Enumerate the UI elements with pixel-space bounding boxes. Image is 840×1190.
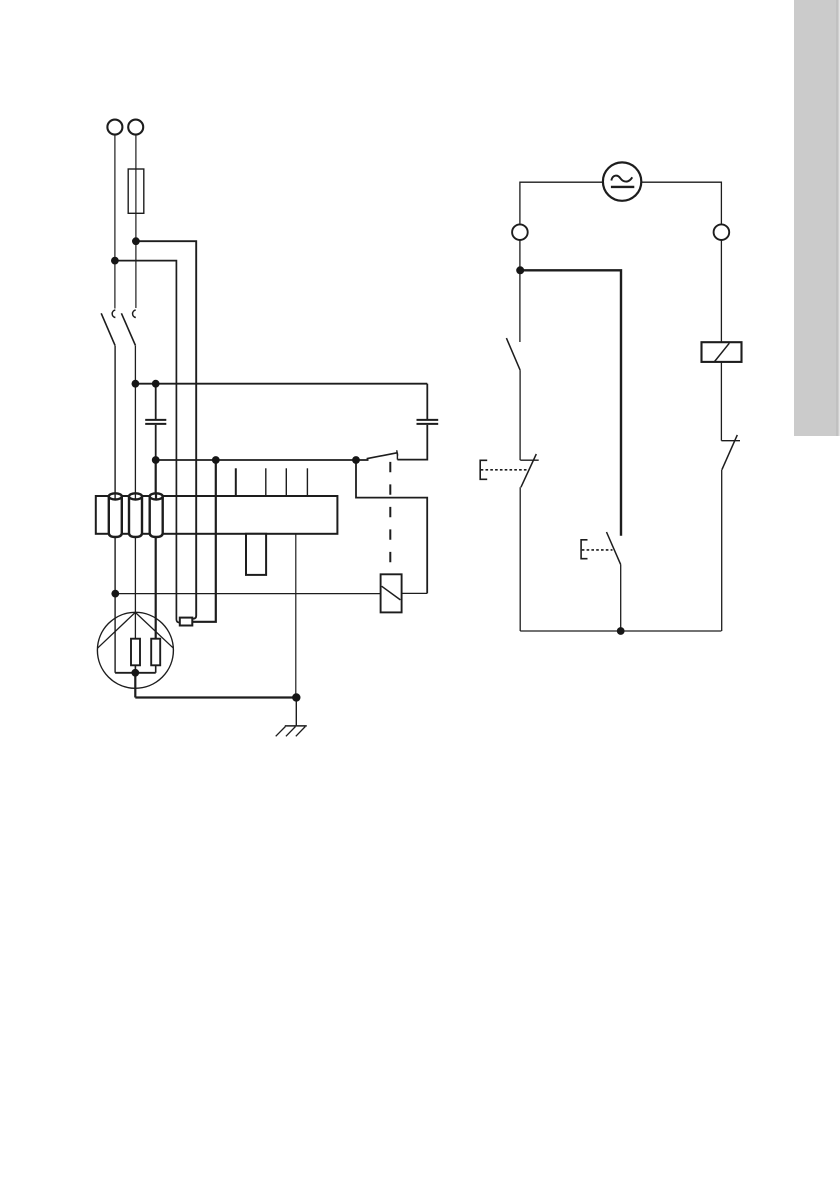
winding 1 lead (134, 665, 136, 673)
switch S1 blade (101, 313, 115, 345)
node bus2 c (352, 456, 360, 464)
wire node to column 3 (115, 261, 180, 623)
NC contact bar (721, 440, 740, 442)
relay contact blade K1 (367, 453, 398, 459)
wire winding bottoms (115, 672, 156, 674)
mechanical link dashed (389, 462, 391, 574)
start button bracket (581, 540, 587, 559)
winding 2 lead (155, 665, 157, 673)
winding 1 (131, 639, 140, 666)
pressure switch blade (521, 454, 536, 487)
relay coil K1 (381, 574, 402, 612)
fuse F1 (128, 169, 144, 213)
terminal block body (96, 496, 338, 534)
wire phase bus upper (135, 383, 427, 385)
wire right branch lower (721, 470, 723, 631)
cylinder terminal 3 (150, 493, 163, 537)
terminal circle right (714, 224, 730, 240)
cylinder terminal 1 (109, 493, 122, 537)
stub t7 (265, 468, 267, 496)
node bus2 a (152, 456, 160, 464)
motor chord right (135, 612, 173, 647)
relay coil diagonal (382, 586, 401, 600)
wire top left (520, 182, 603, 224)
pressure switch bar (520, 459, 538, 461)
cylinder terminal 2 (129, 493, 142, 537)
wire capacitor column down (155, 460, 157, 639)
node fuse-out (132, 237, 140, 245)
wire to relay coil (115, 593, 380, 595)
node L-branch (111, 257, 119, 265)
AC source G1 (603, 162, 641, 200)
wire below coil (720, 362, 722, 441)
node earth (292, 693, 300, 701)
start button dashed link (582, 549, 613, 551)
ground slash 2 (286, 727, 296, 737)
terminal circle left (512, 224, 528, 240)
node relay feed (111, 590, 119, 598)
switch S1 contact (112, 310, 115, 318)
capacitor C2 plates (417, 420, 439, 424)
switch contact K1a blade (506, 338, 520, 370)
wire bottom bus (520, 630, 721, 632)
node bottom (617, 627, 625, 635)
motor M1 circle (97, 612, 173, 688)
ground slash 1 (276, 727, 286, 737)
junction dots (111, 237, 625, 701)
cable lug (180, 618, 193, 626)
motor chord left (98, 612, 136, 648)
holding circuit thick wire (520, 270, 621, 535)
wire S2 down to motor (134, 346, 136, 639)
capacitor C2 lead lower (397, 425, 427, 460)
wire below start button (620, 565, 622, 631)
terminal circle N (128, 120, 143, 135)
ground slash 3 (296, 727, 306, 737)
NC contact blade (722, 435, 737, 470)
wire relay circuit (356, 460, 427, 593)
wire N down through fuse (135, 135, 137, 308)
wire to earth (295, 698, 297, 726)
gray sidebar edge (836, 0, 839, 436)
pressure switch operator bracket (480, 460, 487, 479)
wire coil right (402, 592, 428, 594)
pressure switch dashed link (481, 469, 529, 471)
switch S2 blade (121, 313, 135, 345)
wire through cylinder 3 (155, 493, 157, 499)
wire left branch (519, 240, 521, 342)
stub t9 (306, 468, 308, 496)
wire below pressure switch (519, 487, 521, 631)
terminal circle L (107, 120, 122, 135)
wire through cylinder 2 (134, 493, 136, 499)
AC tilde (611, 176, 632, 182)
plug below block (246, 534, 266, 575)
winding 2 (151, 639, 160, 666)
relay contact tick (397, 450, 398, 455)
wire motor out (135, 673, 296, 698)
wire earth column (295, 534, 297, 698)
node hold (516, 266, 524, 274)
wire L down (114, 135, 116, 309)
node bus2 b (212, 456, 220, 464)
wire between switches (519, 370, 521, 460)
ground bar (285, 725, 307, 727)
capacitor C1 lead (155, 384, 157, 419)
relay coil K1 (control) (702, 342, 742, 362)
gray sidebar (794, 0, 840, 436)
AC bar (611, 186, 634, 188)
wire top right (641, 182, 721, 224)
wire S1 down to motor junction (114, 346, 116, 673)
start button blade (607, 532, 621, 565)
wire node to column 4 (136, 241, 196, 619)
node bus1 b (152, 380, 160, 388)
stub t6 (235, 468, 237, 496)
capacitor C2 lead (426, 384, 428, 419)
stub t8 (285, 468, 287, 496)
wire lower bus (156, 459, 369, 461)
relay coil diagonal (control) (715, 343, 730, 361)
capacitor C1 lead lower (155, 425, 157, 460)
wire right branch upper (720, 240, 722, 342)
node bus1 a (132, 380, 140, 388)
wire through cylinder 1 (114, 493, 116, 499)
switch S2 contact (133, 310, 136, 318)
wire column 5 down (192, 460, 216, 622)
node winding star (131, 669, 139, 677)
capacitor C1 plates (145, 420, 166, 424)
relay contact stub (396, 453, 398, 460)
